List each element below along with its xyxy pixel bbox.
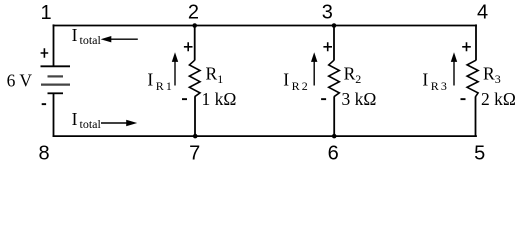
arrow I_R3 (pointing up)	[453, 61, 455, 86]
svg-text:total: total	[80, 33, 102, 47]
svg-text:R: R	[156, 79, 164, 93]
arrow I_total top (pointing left)	[108, 38, 138, 40]
battery plus sign	[41, 48, 49, 58]
R3 plus sign	[462, 42, 471, 51]
battery B1 plate short gray	[48, 75, 64, 77]
node 7 junction dot	[193, 134, 198, 139]
svg-text:total: total	[80, 117, 102, 131]
node 2 junction dot	[192, 23, 197, 28]
svg-text:1: 1	[217, 72, 223, 86]
svg-text:3: 3	[322, 2, 333, 24]
svg-text:4: 4	[477, 2, 488, 24]
R2 minus sign	[321, 98, 326, 100]
arrow I_R2 (pointing up)	[313, 61, 315, 86]
wire branch R1 top stub	[194, 25, 196, 60]
svg-text:R: R	[206, 63, 218, 83]
wire branch R1 bottom stub	[194, 97, 196, 137]
svg-text:7: 7	[189, 142, 200, 164]
arrow I_R1 (pointing up)	[174, 61, 176, 86]
resistor R2 zigzag	[329, 60, 340, 96]
svg-text:3: 3	[441, 79, 447, 93]
wire branch R2 top stub	[333, 25, 335, 60]
svg-text:8: 8	[38, 142, 49, 164]
svg-text:2: 2	[302, 79, 308, 93]
svg-text:6: 6	[328, 142, 339, 164]
svg-text:1: 1	[166, 79, 172, 93]
wire branch R3 bottom stub	[475, 97, 477, 137]
wire branch R3 top stub	[475, 24, 477, 60]
node 6 junction dot	[332, 134, 337, 139]
svg-text:R: R	[483, 63, 495, 83]
wire branch R2 bottom stub	[333, 97, 335, 137]
wire top rail node1-node4	[53, 25, 477, 27]
svg-text:R: R	[431, 79, 439, 93]
resistor R3 zigzag	[467, 60, 478, 96]
svg-text:I: I	[72, 109, 78, 129]
resistor R1 zigzag	[189, 60, 200, 96]
svg-text:2 kΩ: 2 kΩ	[481, 89, 516, 109]
svg-text:1: 1	[40, 2, 51, 24]
svg-text:5: 5	[474, 142, 485, 164]
svg-text:R: R	[292, 79, 300, 93]
wire left vertical above battery	[53, 24, 55, 65]
node 3 junction dot	[332, 23, 337, 28]
svg-text:6 V: 6 V	[7, 71, 33, 91]
wire left vertical below battery	[53, 94, 55, 137]
svg-text:1 kΩ: 1 kΩ	[202, 89, 237, 109]
svg-text:2: 2	[188, 2, 199, 24]
R1 minus sign	[182, 98, 187, 100]
R1 plus sign	[184, 42, 193, 51]
svg-text:2: 2	[355, 72, 361, 86]
svg-text:I: I	[422, 70, 428, 90]
battery B1 plate long top	[41, 65, 71, 67]
battery B1 plate short bottom	[48, 92, 64, 94]
arrow I_total bottom (pointing right)	[101, 122, 127, 124]
svg-text:I: I	[147, 70, 153, 90]
svg-text:I: I	[72, 25, 78, 45]
svg-text:I: I	[283, 70, 289, 90]
svg-text:3 kΩ: 3 kΩ	[342, 89, 377, 109]
battery minus sign	[42, 103, 46, 105]
svg-text:3: 3	[495, 72, 501, 86]
R2 plus sign	[323, 42, 332, 51]
R3 minus sign	[461, 98, 466, 100]
svg-text:R: R	[344, 63, 356, 83]
battery B1 plate long gray	[41, 83, 70, 85]
wire bottom rail node8-node5	[53, 135, 477, 137]
